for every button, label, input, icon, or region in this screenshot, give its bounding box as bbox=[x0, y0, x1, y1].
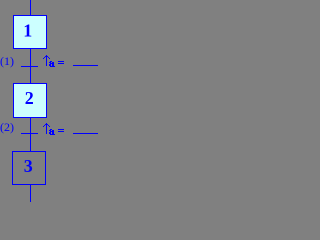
equals sign (transition 1) bbox=[58, 61, 64, 62]
equals sign (transition 2) bbox=[58, 129, 64, 130]
svg-text:3: 3 bbox=[24, 156, 33, 176]
wire: top entry into step 1 bbox=[30, 0, 31, 15]
svg-text:1: 1 bbox=[23, 20, 32, 40]
wire: step 2 to transition 2 bbox=[30, 118, 31, 133]
rising-edge arrow of transition 1 bbox=[43, 55, 50, 66]
svg-text:2: 2 bbox=[25, 88, 34, 108]
rising-edge arrow of transition 2 bbox=[43, 123, 50, 134]
wire: step 1 to transition 1 bbox=[30, 49, 31, 66]
wire: step 3 exit to bottom edge bbox=[30, 185, 31, 202]
svg-text:(1): (1) bbox=[0, 54, 14, 68]
empty condition underline (transition 2) bbox=[73, 133, 98, 134]
step box 2 (active) bbox=[13, 83, 47, 118]
transition bar (1) bbox=[21, 66, 38, 67]
condition variable a (transition 2) bbox=[49, 129, 55, 135]
transition bar (2) bbox=[21, 133, 38, 134]
condition variable a (transition 1) bbox=[49, 61, 55, 67]
wire: transition 2 to step 3 bbox=[30, 134, 31, 151]
svg-text:(2): (2) bbox=[0, 120, 14, 134]
empty condition underline (transition 1) bbox=[73, 65, 98, 66]
step box 3 (inactive) bbox=[12, 151, 46, 185]
step box 1 (active) bbox=[13, 15, 47, 49]
wire: transition 1 to step 2 bbox=[30, 67, 31, 83]
